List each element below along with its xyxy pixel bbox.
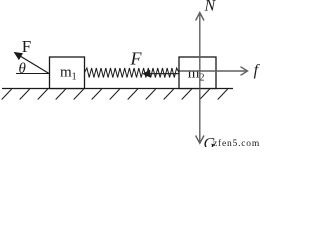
svg-text:F: F bbox=[22, 37, 31, 56]
spring bbox=[85, 68, 180, 78]
spring force arrow on m2 (points left) bbox=[148, 73, 181, 75]
ground line bbox=[2, 88, 233, 90]
ground hatching bbox=[2, 89, 228, 100]
block m2 bbox=[179, 57, 216, 89]
f arrowhead bbox=[241, 67, 248, 76]
G arrowhead bbox=[196, 136, 204, 144]
angle reference line bbox=[16, 73, 49, 75]
gravity G line bbox=[199, 89, 201, 143]
svg-text:θ: θ bbox=[19, 61, 27, 77]
N arrowhead bbox=[196, 13, 204, 21]
svg-text:F: F bbox=[130, 48, 143, 68]
applied force F arrow on m1 bbox=[18, 55, 49, 74]
svg-text:zfen5.com: zfen5.com bbox=[213, 138, 260, 147]
svg-text:N: N bbox=[204, 0, 217, 15]
friction force f line bbox=[180, 70, 246, 72]
block m1 bbox=[50, 57, 85, 89]
normal force N line bbox=[199, 13, 201, 88]
